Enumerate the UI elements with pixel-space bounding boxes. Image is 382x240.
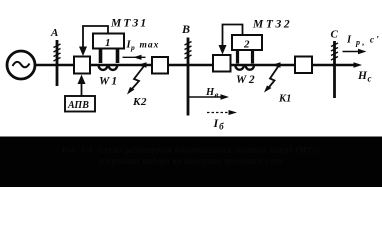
svg-text:МТЗ2: МТЗ2 (252, 19, 292, 31)
svg-text:МТЗ1: МТЗ1 (110, 18, 148, 30)
svg-text:К1: К1 (278, 94, 291, 105)
svg-text:2: 2 (243, 38, 250, 50)
svg-text:АПВ: АПВ (67, 100, 89, 111)
generator G (7, 51, 35, 79)
fault K2 lightning (127, 66, 147, 108)
breaker Q3 (213, 55, 231, 72)
svg-text:Iр mах: Iр mах (126, 40, 160, 53)
svg-text:W2: W2 (236, 74, 257, 86)
svg-text:W1: W1 (99, 76, 119, 88)
label МТЗ2 (252, 19, 292, 31)
svg-text:и принцип выбора их выдержек в: и принцип выбора их выдержек времени в с… (99, 157, 283, 166)
svg-text:К2: К2 (132, 96, 147, 108)
breaker Q1 (74, 57, 90, 74)
label W1 (99, 76, 119, 88)
bus A (54, 40, 61, 86)
arrow Iр,с (343, 35, 382, 55)
label Iр max with arrow (123, 40, 160, 60)
svg-text:С: С (331, 29, 339, 41)
trip wire МТЗ1 to Q1 (79, 26, 108, 56)
svg-text:А: А (50, 27, 58, 39)
CT W2 (235, 50, 254, 70)
node C label (331, 29, 339, 41)
wire arrow toward B at K1 (272, 62, 281, 68)
bus B (185, 38, 192, 116)
label МТЗ1 (110, 18, 148, 30)
node B label (181, 22, 190, 36)
svg-text:В: В (181, 22, 190, 36)
fault K1 lightning (264, 66, 291, 105)
svg-text:Нв: Нв (205, 87, 219, 100)
CT W1 (99, 49, 118, 70)
svg-text:1: 1 (105, 37, 111, 49)
wire main feeder line (34, 64, 356, 67)
current arrow Іб (207, 110, 237, 132)
auto-reclose АПВ box with arrow to Q1 (65, 75, 95, 112)
bus C (331, 41, 338, 98)
label W2 (236, 74, 257, 86)
breaker Q4 (295, 57, 312, 74)
caption band (0, 137, 382, 188)
trip wire МТЗ2 to Q3 (219, 25, 243, 55)
relay МТЗ2 box 2 (232, 35, 262, 50)
relay МТЗ1 box 1 (93, 34, 124, 49)
svg-text:Рис. 1.8. Схема размещения мак: Рис. 1.8. Схема размещения максимальных … (62, 146, 320, 155)
wire arrow toward A at K2 (138, 62, 147, 68)
wire end arrow Нс (354, 62, 372, 83)
node A label (50, 27, 58, 39)
breaker Q2 (152, 57, 168, 74)
load arrow Нв (189, 87, 229, 100)
